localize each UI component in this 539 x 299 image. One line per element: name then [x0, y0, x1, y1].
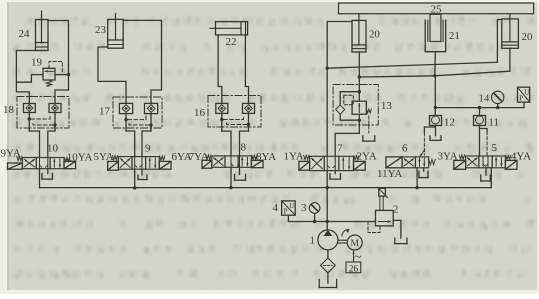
- label 5YA: [94, 151, 114, 163]
- pilot check valve block 17: [99, 97, 162, 131]
- paper grain overlay (decorative): [0, 0, 1, 1]
- label 10YA: [67, 152, 93, 164]
- wire: valve 8 P to bus: [229, 167, 232, 189]
- label 3YA: [438, 150, 458, 162]
- directional valve 5: [454, 142, 517, 169]
- wire: cyl23 bottom port to block 17 left: [98, 47, 126, 103]
- cylinder 20 (right): [502, 14, 533, 49]
- label 2YA: [357, 151, 377, 163]
- tank drain valve 8: [235, 167, 246, 180]
- wire: main riser valve7 A to cyl20 tops: [326, 68, 328, 156]
- wire: cyl22 left port to block 16 left: [218, 35, 222, 104]
- cylinder 23: [95, 14, 123, 49]
- pilot check valve block 18: [3, 97, 69, 132]
- wire: gauge/switch line at pump: [288, 220, 375, 223]
- wire: block 13 out to valve 7 B: [335, 133, 359, 156]
- tank drain valve 5: [481, 168, 491, 181]
- tank drain valve 7: [330, 171, 341, 180]
- pressure gauge 14: [478, 91, 504, 109]
- cylinder 20 (left): [352, 14, 380, 52]
- wire: block 18 to valve 10: [29, 131, 55, 158]
- wire: cyl24 top port riser: [48, 21, 69, 104]
- pressure switch 4: [273, 201, 296, 222]
- wire: cyl23 top port riser: [123, 20, 161, 103]
- page edge shadow (decorative): [7, 2, 9, 290]
- control box 26: [346, 251, 361, 274]
- label 9YA: [1, 148, 21, 160]
- pressure gauge 3: [301, 202, 320, 222]
- pilot check valve block 16: [194, 96, 261, 132]
- wire: branch down to pilot check feed line: [434, 76, 524, 116]
- wire: rod-side ports line (cyl 20L top - cyl 20R top): [326, 20, 502, 70]
- tank drain valve 10: [42, 169, 53, 179]
- filter: [321, 250, 336, 283]
- directional valve 6: [386, 143, 435, 168]
- directional valve 9: [108, 143, 171, 171]
- wire: block 16 to valve 8: [222, 131, 249, 156]
- pump 1: [310, 230, 338, 250]
- motor M: [338, 229, 362, 265]
- wire: head-side ports line (cyl bottoms): [358, 48, 510, 78]
- directional valve 8: [202, 142, 263, 169]
- label 11YA: [377, 168, 402, 180]
- pilot check valve 11: [474, 106, 499, 156]
- wire: valve 9 P to bus: [133, 169, 136, 189]
- tank drain valve 9: [138, 169, 147, 179]
- label 8YA: [256, 151, 276, 163]
- pilot check valve 12: [420, 116, 455, 157]
- cylinder 24: [19, 11, 49, 51]
- wire: valve 6 P to bus: [415, 168, 418, 190]
- label 1YA: [284, 151, 304, 163]
- wire: valve 10 P to bus: [39, 169, 41, 188]
- press beam 25: [339, 3, 534, 16]
- directional valve 10: [8, 143, 76, 170]
- wire: valve 7 P riser to pump: [326, 171, 329, 230]
- wire: block 17 to valve 9: [126, 131, 151, 157]
- wire: cyl24 bottom port to block 18 left: [16, 51, 35, 104]
- label 7YA: [189, 151, 209, 163]
- pressure switch (top right): [518, 87, 530, 107]
- cylinder 21 (ram): [425, 14, 460, 51]
- label 4YA: [511, 151, 531, 163]
- cylinder 22: [210, 22, 248, 48]
- tank drain valve 6: [419, 168, 428, 178]
- wire: pump pressure bus: [40, 168, 492, 188]
- sequence/check block 13: [333, 77, 392, 141]
- relief valve 2: [368, 187, 407, 243]
- directional valve 7: [299, 143, 365, 171]
- relief valve 19: [16, 57, 70, 87]
- tank (main): [319, 279, 336, 287]
- label 6YA: [172, 151, 192, 163]
- wire: cyl22 right port to block 16 right: [245, 35, 248, 104]
